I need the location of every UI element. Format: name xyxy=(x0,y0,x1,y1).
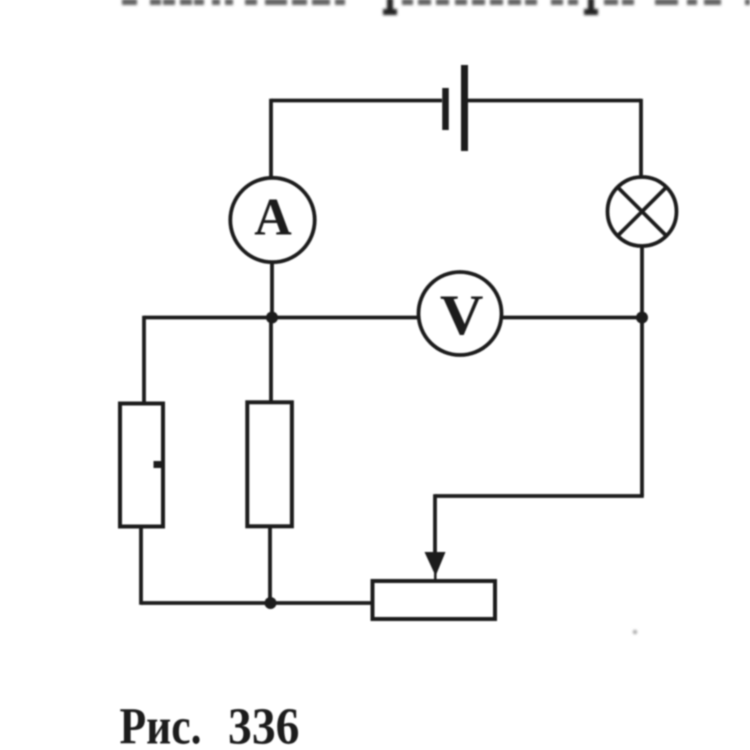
arrow head of rheostat slider xyxy=(425,552,446,576)
resistor R1 body xyxy=(120,404,163,527)
voltmeter V1 circle xyxy=(419,272,502,355)
svg-text:Рис.: Рис. xyxy=(120,699,202,750)
battery B1 short plate xyxy=(442,88,449,130)
descender of second 'p' xyxy=(588,0,594,13)
wire resistor R2 bottom lead xyxy=(268,526,272,603)
wire lamp to right node and down xyxy=(640,246,644,496)
resistor R2 body xyxy=(247,402,292,526)
wire lower-right horizontal xyxy=(435,494,644,498)
wire ammeter to node xyxy=(270,262,274,318)
lamp L1 circle xyxy=(608,177,677,246)
scan speck xyxy=(633,630,637,634)
top clipped text line (letter bottoms) xyxy=(122,0,750,15)
node junction bottom xyxy=(265,597,277,609)
arrow tip stem xyxy=(434,570,437,579)
battery B1 long plate xyxy=(461,65,468,151)
wire resistor R2 top lead xyxy=(269,318,273,403)
svg-text:336: 336 xyxy=(228,699,300,750)
ammeter A1 circle xyxy=(230,178,314,262)
wire top-left horizontal xyxy=(271,99,442,103)
wire voltmeter to right node xyxy=(503,316,642,320)
descender of 'p' xyxy=(387,0,393,13)
wire bottom-left vertical xyxy=(139,528,143,605)
svg-text:A: A xyxy=(254,189,292,247)
wire battery to top-right corner xyxy=(468,99,641,103)
lamp L1 cross xyxy=(618,187,667,236)
node junction left xyxy=(266,312,278,324)
wire mid-left corner vertical xyxy=(142,316,146,402)
rheostat R3 body xyxy=(373,581,496,619)
resistor R1 speck xyxy=(154,461,163,468)
node junction right xyxy=(636,312,648,324)
wire top-left vertical xyxy=(269,99,273,177)
svg-text:V: V xyxy=(440,284,484,347)
wire bottom horizontal xyxy=(141,601,372,605)
wire to rheostat arrow xyxy=(433,494,437,556)
wire top-right vertical xyxy=(639,99,643,177)
wire mid-left horizontal xyxy=(144,316,418,320)
